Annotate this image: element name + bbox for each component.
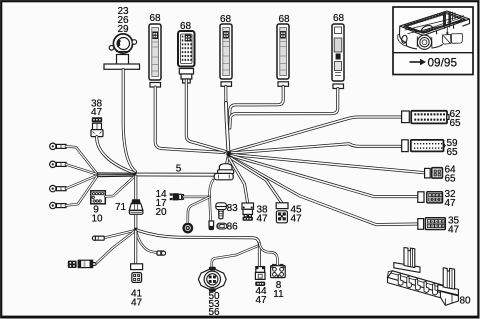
svg-text:47: 47 [255,295,267,306]
connector 8/11 [271,264,286,278]
inset arrow 09/95 [410,55,458,69]
wire from stand down to left junction [123,70,135,172]
bullet terminal right [157,251,166,255]
label 32 47 [445,189,457,209]
trunk wire 68 (3) down to junction knot [226,86,229,151]
junction knot 2 (lower) [134,228,138,232]
wire bundle rings to left junction [97,173,134,177]
svg-text:11: 11 [273,289,284,300]
label 14 17 20 [155,189,167,218]
svg-text:86: 86 [227,222,239,233]
wire ring terminal 1 [66,146,97,173]
wire branch to 8/11 [259,244,277,266]
connector 68 (2) [178,31,195,67]
connector 14/17/20 [170,193,184,200]
connector 38/47 (left) [91,117,103,136]
wire to connector 62/65 [232,117,402,152]
label 45 47 [291,205,303,225]
wire to connector 64/65 [232,155,425,173]
grommet at right end of bus 5 [214,164,233,180]
collar under connector 68 (4) [278,82,289,87]
ring terminal 2 [50,161,66,167]
label 8 11 [273,280,284,300]
capped wire end [209,221,214,230]
wire junction2 to right small bullet [136,232,157,253]
connector 44/47 [255,267,265,286]
bullet terminal left [92,236,104,240]
wire ring terminal 2 [66,164,97,174]
inset box frame [393,7,473,75]
wire ring terminal 4 [66,176,97,205]
label 50 53 56 [208,291,220,318]
svg-text:68: 68 [333,13,345,24]
wire 68 (1) to junction knot [155,87,224,153]
svg-text:71: 71 [115,202,127,213]
junction knot (main) [226,151,231,157]
label 9 10 [91,205,103,225]
label 44 47 [255,286,267,306]
svg-text:20: 20 [155,207,167,218]
label 64 65 [445,165,457,185]
svg-text:47: 47 [445,198,457,209]
svg-text:5: 5 [176,164,182,175]
wire junction2 to left bullet [104,231,134,238]
lower-left connector [68,260,97,268]
stand under round connector [104,55,140,70]
hook tab 4 on bracket 80 [424,281,429,292]
wire branch to 50/53/56 [212,246,258,268]
wire to connector 38/47 (right) [229,158,248,203]
wire to connector 35/47 [231,157,418,225]
valve 50/53/56 [198,267,226,292]
wire junction2 to lower-left connector [97,231,135,263]
wire ring terminal 3 [66,175,97,188]
boot 71 [129,199,143,214]
wire 38/47 (left) to left junction [97,137,134,173]
wire junction2 down to 41/47 [134,231,137,264]
label 38 47 (right) [257,205,269,225]
label 38 47 (left) [91,99,103,119]
svg-text:47: 47 [91,107,103,118]
connector 45/47 [276,203,288,223]
hook tab 1 on bracket 80 [398,274,403,285]
svg-text:47: 47 [291,214,303,225]
wire 9/10 to left junction [105,176,135,196]
svg-text:09/95: 09/95 [428,55,458,69]
wire dark round to node [188,197,210,223]
connector 64/65 [432,168,443,178]
hook tab 5 on bracket 80 [433,284,438,295]
svg-text:68: 68 [149,13,161,24]
label 62 65 [450,109,462,129]
round connector 23/26/29 [109,34,136,53]
left post of bracket 80 [394,263,420,273]
stepped base under connector 68 (2) [179,69,193,84]
svg-text:47: 47 [257,214,269,225]
svg-text:47: 47 [448,225,460,236]
wire to connector 45/47 [230,158,282,203]
connector 38/47 (right) [242,203,254,221]
wire grommet to capped end [210,180,213,221]
connector 64/65 collar [425,168,431,178]
bolt 83 [216,203,227,219]
collar under connector 68 (5) [333,84,344,89]
connector 32/47 collar [418,192,424,203]
wire to connector 32/47 [231,156,418,197]
connector 35/47 collar [418,219,424,230]
wire 14/17/20 to node [184,196,210,199]
connector 35/47 [425,218,445,230]
label 41 47 [131,289,143,309]
label 59 65 [447,138,459,158]
connector 32/47 [427,192,443,203]
grommet sensor (dark round) [182,223,193,234]
connector 41/47 [131,264,143,283]
connector 59/65 [411,140,446,152]
right foot block of bracket 80 [440,291,458,305]
bus 5 horizontal [137,173,215,177]
connector 62/65 [411,111,449,124]
inset cable-duct illustration [398,11,470,49]
wire 68 (4) joining trunk [229,86,283,124]
connector 68 (4) [277,24,289,79]
connector 59/65 collar [402,140,409,152]
svg-text:83: 83 [227,203,239,214]
clip 86 [217,223,227,229]
ring terminal 3 [50,185,66,191]
connector 9/10 [91,191,106,204]
svg-text:56: 56 [208,307,220,318]
connector 62/65 collar [402,111,410,123]
left junction knot [134,172,138,177]
collar under connector 68 (3) [221,82,232,87]
connector 68 (5) [332,24,344,81]
svg-text:80: 80 [460,296,472,307]
wire to connector 59/65 [232,144,402,153]
wire knot to grommet [227,155,229,164]
bracket 80 [388,248,459,306]
svg-text:10: 10 [91,214,103,225]
svg-text:65: 65 [445,174,457,185]
label 23 26 29 [117,6,129,35]
hook tab 2 on bracket 80 [407,276,412,287]
wire left junction down through boot [134,176,137,229]
hook tab 3 on bracket 80 [415,279,420,290]
svg-text:65: 65 [447,147,459,158]
svg-text:65: 65 [450,118,462,129]
ring terminal 1 [50,143,66,149]
bus from junction2 to bottom right [137,230,259,266]
right post of bracket 80 [438,285,459,295]
hook tab 6 on bracket 80 [441,286,446,297]
svg-text:47: 47 [131,298,143,309]
label 35 47 [448,216,460,236]
ring terminal 4 [50,202,66,208]
connector 68 (1) [149,24,161,80]
connector 68 (3) [220,24,232,79]
collar under connector 68 (1) [150,83,161,88]
wire 68 (2) to junction knot [186,80,225,151]
wire 68 (5) to junction knot [230,89,338,129]
